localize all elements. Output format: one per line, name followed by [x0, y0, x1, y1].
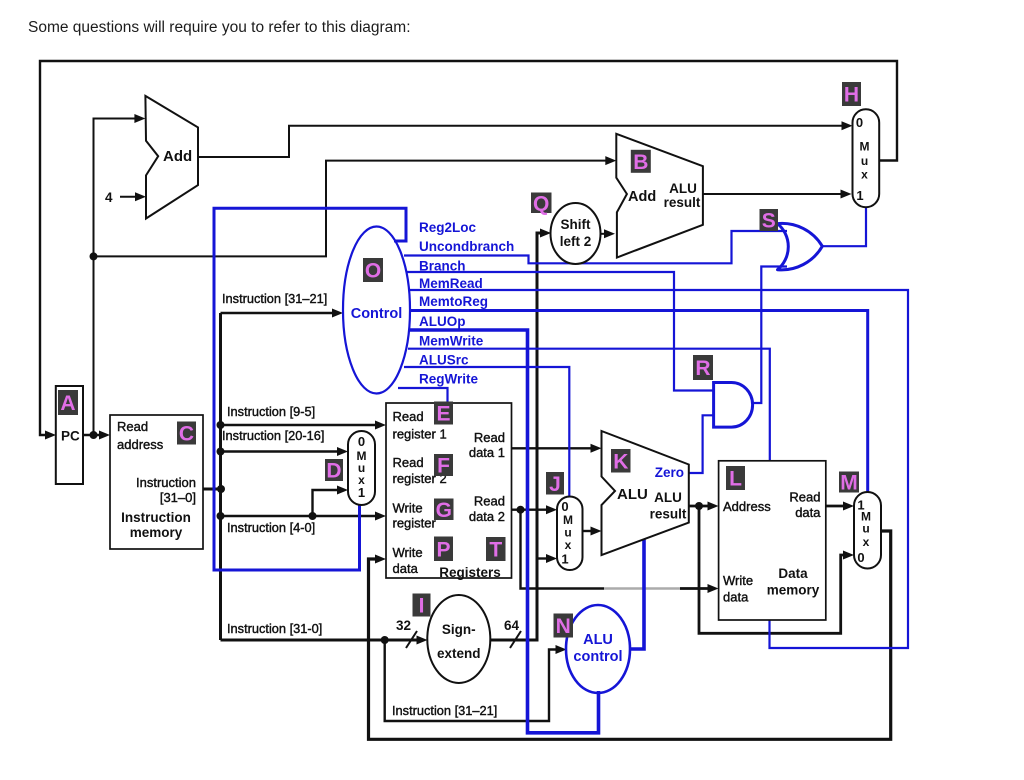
svg-text:Instruction [4-0]: Instruction [4-0]	[227, 520, 315, 535]
svg-text:register: register	[393, 516, 437, 531]
svg-text:result: result	[650, 507, 687, 522]
badge Q	[531, 192, 552, 215]
wire instruction memory output to instruction bus	[203, 488, 222, 491]
adder B (branch target Add / ALU result)	[616, 134, 703, 258]
badge I	[413, 594, 431, 618]
svg-text:Write: Write	[393, 501, 423, 516]
svg-text:R: R	[695, 357, 710, 380]
wire Reg2Loc to mux D select	[214, 208, 406, 570]
svg-text:B: B	[633, 151, 648, 174]
svg-text:ALU: ALU	[654, 490, 682, 505]
ALU control oval	[566, 605, 630, 693]
svg-text:Instruction: Instruction	[136, 475, 196, 490]
svg-text:data 1: data 1	[469, 445, 505, 460]
svg-text:data: data	[393, 561, 419, 576]
svg-text:Address: Address	[723, 499, 771, 514]
svg-text:H: H	[844, 84, 859, 107]
svg-text:ALUSrc: ALUSrc	[419, 353, 469, 368]
OR gate S	[778, 223, 823, 269]
wire Instruction [31-21] to Control	[221, 312, 336, 314]
badge N	[554, 614, 574, 639]
svg-text:N: N	[556, 615, 571, 638]
svg-text:0: 0	[561, 499, 568, 514]
wire Instruction [4-0] to Write register and mux D input 1	[221, 515, 379, 517]
svg-text:[31–0]: [31–0]	[160, 490, 196, 505]
wire ALUOp to ALU control	[410, 330, 599, 733]
wire AND gate output to OR gate input	[753, 267, 787, 404]
wire PC output to instruction memory	[83, 434, 102, 436]
badge R	[693, 355, 713, 380]
svg-text:u: u	[861, 154, 868, 168]
wire OR gate output to mux H select	[822, 208, 866, 247]
badge G	[434, 499, 454, 522]
wire Zero to AND gate R	[689, 415, 714, 473]
shift left 2 oval	[551, 203, 601, 264]
svg-text:Q: Q	[533, 192, 549, 215]
wire PC feedback loop from mux H output to PC input	[40, 61, 897, 435]
svg-text:Instruction: Instruction	[121, 510, 191, 525]
svg-text:Add: Add	[628, 189, 656, 205]
svg-text:MemRead: MemRead	[419, 276, 483, 291]
badge L	[726, 466, 745, 491]
wire Instruction [31-0] down to sign-extend	[221, 639, 420, 642]
mux M (1 Mux 0)	[854, 492, 881, 569]
svg-text:left 2: left 2	[560, 234, 592, 249]
badge H	[842, 82, 861, 107]
wire ALU control output to ALU	[630, 539, 644, 649]
svg-text:D: D	[326, 460, 341, 483]
svg-text:Read: Read	[789, 490, 820, 505]
wire Instruction [31-21] to ALU control	[385, 640, 558, 721]
registers block	[386, 403, 512, 578]
svg-text:Branch: Branch	[419, 259, 466, 274]
svg-text:Read: Read	[393, 455, 424, 470]
svg-text:data: data	[795, 505, 821, 520]
svg-text:32: 32	[396, 618, 411, 633]
wire ALU result to data memory address	[689, 505, 711, 508]
svg-text:M: M	[860, 140, 870, 154]
svg-text:Write: Write	[723, 573, 753, 588]
svg-text:result: result	[664, 195, 701, 210]
svg-text:0: 0	[857, 550, 864, 565]
svg-text:u: u	[862, 522, 869, 536]
svg-text:Zero: Zero	[655, 465, 684, 480]
badge A	[58, 390, 78, 415]
badge T	[486, 537, 506, 562]
svg-text:x: x	[565, 538, 572, 552]
wire Instruction [20-16] to mux D input 0	[221, 450, 341, 452]
register PC	[56, 386, 83, 484]
svg-text:Add: Add	[163, 148, 192, 165]
sign-extend oval	[427, 595, 490, 683]
svg-text:Read: Read	[117, 419, 148, 434]
AND gate R	[714, 383, 753, 428]
badge O	[363, 258, 383, 283]
svg-text:Data: Data	[778, 566, 808, 581]
mux J (0 Mux 1)	[557, 497, 583, 571]
wire Uncondbranch to OR gate S	[404, 231, 787, 263]
svg-text:ALUOp: ALUOp	[419, 314, 466, 329]
svg-text:ALU: ALU	[617, 486, 648, 503]
wire PC tap vertical up to Add	[94, 119, 138, 436]
node instruction bus junction	[217, 485, 225, 493]
wire instruction bus vertical	[219, 313, 222, 640]
svg-text:Sign-: Sign-	[442, 622, 476, 637]
wire Add output (PC+4) to mux H input 0	[198, 126, 845, 157]
node junction at PC output	[90, 431, 98, 439]
svg-text:T: T	[489, 539, 502, 562]
svg-text:1: 1	[561, 552, 568, 567]
wire Read data 1 to ALU	[512, 447, 594, 449]
svg-text:Instruction [31–21]: Instruction [31–21]	[392, 703, 497, 718]
wire Instruction [9-5] to Read register 1	[221, 424, 379, 426]
wire sign-extend output up to shift left 2	[490, 233, 543, 640]
adder Add (PC+4)	[145, 96, 198, 219]
svg-text:C: C	[179, 423, 194, 446]
svg-text:Instruction [31–21]: Instruction [31–21]	[222, 291, 327, 306]
svg-text:memory: memory	[130, 525, 183, 540]
wire mux J output to ALU	[583, 530, 594, 532]
wire Read data 2 to mux J input 0	[512, 509, 550, 511]
wire mux M output loop back to registers Write data	[369, 531, 891, 739]
wire Branch to AND gate R	[406, 272, 714, 391]
svg-text:RegWrite: RegWrite	[419, 372, 479, 387]
badge J	[546, 472, 564, 496]
badge P	[434, 537, 453, 562]
mux D (0 Mux 1)	[348, 431, 375, 505]
svg-text:L: L	[729, 468, 742, 491]
wire 4 into Add	[120, 196, 138, 198]
svg-text:extend: extend	[437, 646, 481, 661]
instruction memory	[110, 415, 203, 549]
svg-text:A: A	[60, 392, 75, 415]
wire ALU result bypass to mux M input 0	[699, 506, 846, 633]
wire Read data 2 down to data memory write data	[521, 510, 605, 589]
svg-text:O: O	[365, 260, 381, 283]
wire PC tap to branch adder B	[94, 161, 609, 257]
control oval	[343, 227, 410, 394]
badge F	[434, 454, 453, 478]
svg-text:64: 64	[504, 618, 520, 633]
svg-text:E: E	[436, 403, 450, 426]
svg-text:PC: PC	[61, 429, 80, 444]
wire MemRead to data memory read control	[408, 290, 908, 648]
svg-text:data 2: data 2	[469, 509, 505, 524]
svg-text:0: 0	[856, 115, 863, 130]
mux H (0 Mux 1)	[853, 109, 880, 207]
tick 32-bit on sign-extend input	[406, 631, 417, 648]
svg-text:P: P	[436, 538, 450, 561]
svg-text:x: x	[861, 168, 868, 182]
badge B	[631, 150, 651, 174]
svg-text:Read: Read	[474, 430, 505, 445]
ALU K	[602, 431, 689, 555]
wire ALUSrc to mux J select	[404, 367, 569, 497]
badge K	[611, 449, 631, 473]
svg-text:Read: Read	[393, 409, 424, 424]
svg-text:G: G	[436, 499, 452, 522]
badge S	[760, 209, 779, 233]
svg-text:memory: memory	[767, 583, 820, 598]
svg-text:ALU: ALU	[583, 632, 613, 648]
tick 64-bit on sign-extend output	[510, 631, 521, 648]
svg-text:x: x	[863, 535, 870, 549]
svg-text:Some questions will require yo: Some questions will require you to refer…	[28, 19, 411, 36]
svg-text:Write: Write	[393, 545, 423, 560]
svg-text:register 1: register 1	[393, 427, 447, 442]
badge M	[839, 472, 859, 495]
wire branch adder B result to mux H input 1	[703, 193, 844, 195]
svg-text:Instruction [9-5]: Instruction [9-5]	[227, 404, 315, 419]
wire MemWrite to data memory write control	[408, 349, 770, 461]
svg-text:control: control	[573, 649, 622, 665]
svg-text:MemtoReg: MemtoReg	[419, 294, 488, 309]
svg-text:4: 4	[105, 190, 113, 205]
svg-text:address: address	[117, 437, 164, 452]
svg-text:Uncondbranch: Uncondbranch	[419, 239, 514, 254]
svg-text:ALU: ALU	[669, 181, 697, 196]
svg-text:Instruction [20-16]: Instruction [20-16]	[222, 428, 324, 443]
wire RegWrite to registers write control	[398, 388, 448, 404]
node junction on PC tap	[90, 252, 98, 260]
badge C	[177, 422, 196, 446]
svg-text:1: 1	[358, 485, 365, 500]
wire data memory Read data to mux M input 1	[826, 505, 846, 508]
svg-text:S: S	[762, 210, 776, 233]
svg-text:Control: Control	[351, 306, 403, 322]
svg-text:1: 1	[856, 188, 863, 203]
badge E	[434, 402, 453, 426]
svg-text:Registers: Registers	[439, 565, 501, 580]
wire shift left 2 output to branch adder B	[601, 233, 608, 235]
wire MemtoReg to mux M select	[409, 311, 868, 493]
svg-text:Read: Read	[474, 494, 505, 509]
svg-text:data: data	[723, 590, 749, 605]
svg-text:Shift: Shift	[561, 217, 591, 232]
svg-text:0: 0	[358, 434, 365, 449]
badge D	[325, 459, 343, 483]
data memory block	[719, 461, 826, 620]
svg-text:Reg2Loc: Reg2Loc	[419, 220, 477, 235]
svg-text:I: I	[419, 595, 425, 618]
svg-text:M: M	[840, 472, 858, 495]
svg-text:F: F	[437, 455, 450, 478]
svg-text:MemWrite: MemWrite	[419, 334, 484, 349]
wire sign-extend branch to mux J input 1	[537, 557, 549, 559]
svg-text:J: J	[549, 473, 561, 496]
svg-text:Instruction [31-0]: Instruction [31-0]	[227, 621, 322, 636]
svg-text:K: K	[613, 450, 628, 473]
